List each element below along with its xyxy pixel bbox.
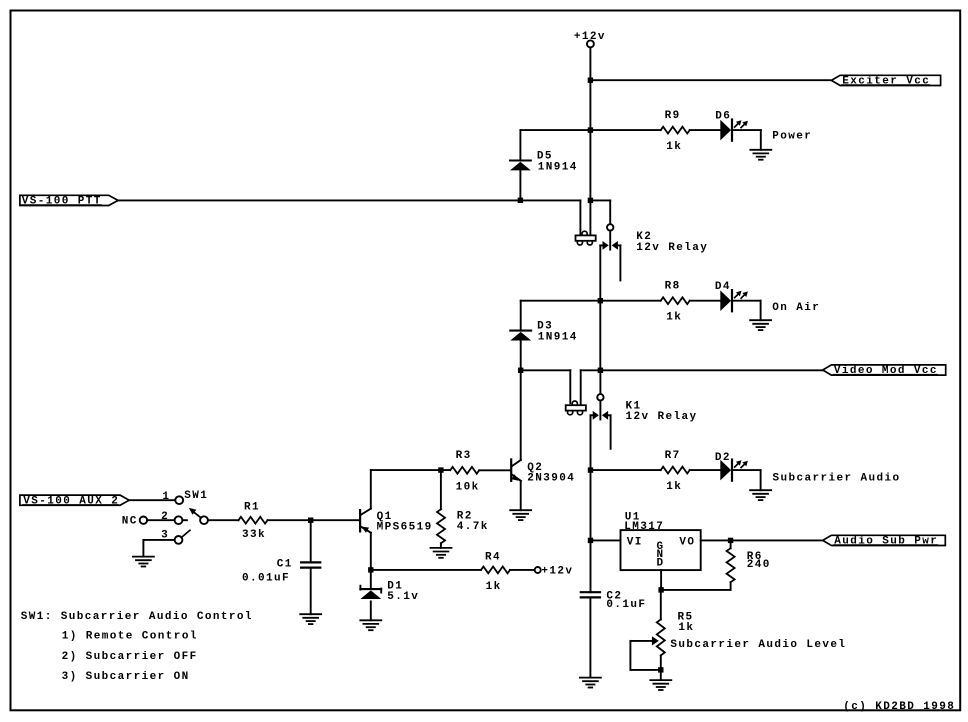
wire R8 row xyxy=(521,300,661,302)
svg-text:1N914: 1N914 xyxy=(538,161,578,173)
switch SW1 contact 2 xyxy=(175,516,183,524)
wire to D1 xyxy=(370,570,372,589)
wire to D3 cathode xyxy=(520,301,522,331)
wire to Exciter Vcc flag xyxy=(590,79,830,81)
junction R2 top xyxy=(438,467,443,472)
wire to R4 xyxy=(371,569,481,571)
transistor Q2 xyxy=(511,459,521,481)
svg-text:SW1: Subcarrier Audio Control: SW1: Subcarrier Audio Control xyxy=(21,611,253,623)
capacitor C2 xyxy=(581,592,600,597)
svg-text:Exciter Vcc: Exciter Vcc xyxy=(842,76,930,88)
wire to C1 xyxy=(310,520,312,562)
wire C1 to ground xyxy=(310,568,312,615)
svg-text:5.1v: 5.1v xyxy=(387,591,419,603)
wire SW1-3 to ground xyxy=(143,540,174,557)
wire R4 to +12v xyxy=(510,569,535,571)
svg-text:SW1: SW1 xyxy=(184,490,208,502)
svg-text:D2: D2 xyxy=(715,452,731,464)
wire Q2 collector up xyxy=(520,370,522,460)
switch SW1 arm xyxy=(189,508,201,518)
ground at D6 xyxy=(750,150,771,160)
net flag VS-100 PTT xyxy=(20,195,118,205)
wire U1 VO to Audio Sub Pwr xyxy=(701,539,823,541)
svg-text:D: D xyxy=(657,557,665,569)
LED D4 xyxy=(720,290,748,311)
wire AUX2 to SW1-1 xyxy=(129,499,175,501)
svg-text:+12v: +12v xyxy=(541,566,573,578)
switch SW1 contact 3 xyxy=(175,536,183,544)
diode D5 xyxy=(510,161,531,171)
resistor R8 xyxy=(661,297,690,304)
svg-text:1k: 1k xyxy=(666,312,682,324)
svg-text:VI: VI xyxy=(627,537,643,549)
wire VS-100 PTT to K2 coil xyxy=(118,200,580,235)
ground at D2 xyxy=(750,490,771,500)
svg-text:R8: R8 xyxy=(665,281,681,293)
net flag Video Mod Vcc xyxy=(823,365,946,375)
svg-text:VO: VO xyxy=(679,537,695,549)
wire to R2 xyxy=(440,470,442,509)
svg-text:R9: R9 xyxy=(665,110,681,122)
svg-text:10k: 10k xyxy=(456,482,480,494)
ground at R2 xyxy=(431,548,452,558)
svg-text:0.01uF: 0.01uF xyxy=(242,573,290,585)
svg-text:On Air: On Air xyxy=(772,302,820,314)
transistor Q1 xyxy=(360,509,371,533)
svg-text:R7: R7 xyxy=(665,450,681,462)
LED D2 xyxy=(720,460,748,481)
wire D2 to ground xyxy=(732,470,761,490)
svg-text:2) Subcarrier OFF: 2) Subcarrier OFF xyxy=(62,651,198,663)
node +12v terminal 2 xyxy=(535,567,541,573)
svg-text:1k: 1k xyxy=(666,481,682,493)
junction K1 output xyxy=(588,467,593,472)
wire R5 to ground xyxy=(660,670,662,680)
wire NC to SW1-2 xyxy=(147,519,175,521)
svg-text:R4: R4 xyxy=(485,552,501,564)
junction K1 xyxy=(598,368,603,373)
svg-text:1: 1 xyxy=(162,491,170,503)
wire U1 GND down xyxy=(660,570,662,590)
svg-text:Subcarrier Audio Level: Subcarrier Audio Level xyxy=(670,639,846,651)
wire R9 row left xyxy=(520,129,660,131)
wire R2 to ground xyxy=(440,543,442,548)
junction video mod left xyxy=(518,368,523,373)
svg-text:240: 240 xyxy=(747,559,771,571)
junction R5 wiper tie xyxy=(658,667,663,672)
junction C1 top xyxy=(308,518,313,523)
ground at D1 xyxy=(360,620,381,630)
svg-text:R3: R3 xyxy=(456,450,472,462)
wire bus to U1 row xyxy=(590,470,592,540)
wire +12v down xyxy=(589,47,591,80)
wire R6 bottom to U1 GND xyxy=(661,582,731,590)
diode D3 xyxy=(510,331,531,341)
wire Q2 emitter xyxy=(520,481,522,510)
svg-text:D6: D6 xyxy=(715,111,731,123)
switch SW1 contact 1 xyxy=(175,496,183,504)
wire D4 to ground xyxy=(732,301,761,321)
node +12v terminal xyxy=(587,40,594,47)
wire D1 to ground xyxy=(370,601,372,620)
junction K2 output xyxy=(598,298,603,303)
svg-text:Subcarrier Audio: Subcarrier Audio xyxy=(773,472,901,484)
wire SW1-2 stub xyxy=(182,519,187,521)
LED D6 xyxy=(720,120,748,141)
ground at R5 xyxy=(650,680,671,690)
svg-text:12v Relay: 12v Relay xyxy=(626,411,698,423)
wire to R5 xyxy=(660,590,662,620)
junction at Exciter Vcc wire xyxy=(588,78,593,83)
wire to U1 VI xyxy=(591,539,621,541)
wire bus to C2 xyxy=(590,540,592,592)
wire R8 to D4 xyxy=(690,300,721,302)
svg-text:3) Subcarrier ON: 3) Subcarrier ON xyxy=(62,671,190,683)
ground at C1 xyxy=(300,614,321,624)
relay contact K1 xyxy=(591,370,611,470)
wire K2 output down xyxy=(599,301,601,371)
capacitor C1 xyxy=(301,562,320,567)
svg-text:1N914: 1N914 xyxy=(538,331,578,343)
ground at D4 xyxy=(750,320,771,330)
junction R6 top xyxy=(728,538,733,543)
wire D5 anode down xyxy=(519,170,521,200)
junction Q1 emitter node xyxy=(368,567,373,572)
svg-text:Video Mod Vcc: Video Mod Vcc xyxy=(834,365,938,377)
switch SW1 throw stub xyxy=(181,530,190,537)
svg-text:(c) KD2BD 1998: (c) KD2BD 1998 xyxy=(843,701,955,713)
svg-text:MPS6519: MPS6519 xyxy=(377,521,433,533)
junction on PTT wire xyxy=(518,198,523,203)
svg-text:Audio Sub Pwr: Audio Sub Pwr xyxy=(834,536,938,548)
wire R1 to Q1 base xyxy=(268,519,360,521)
wire K1 coil right to Video Mod Vcc xyxy=(581,370,823,405)
net flag VS-100 AUX 2 xyxy=(20,495,129,505)
svg-text:1k: 1k xyxy=(666,141,682,153)
wire SW1 pole to R1 xyxy=(208,519,239,521)
resistor R9 xyxy=(661,127,690,134)
resistor R2 xyxy=(437,509,445,543)
potentiometer R5 xyxy=(657,619,665,655)
svg-text:Power: Power xyxy=(772,130,812,142)
wire R3 to Q2 base xyxy=(479,469,510,471)
resistor R4 xyxy=(481,567,510,574)
potentiometer R5 wiper xyxy=(630,636,660,670)
svg-text:1k: 1k xyxy=(678,622,694,634)
switch SW1 pole xyxy=(200,516,208,524)
wire Q1 collector xyxy=(370,470,372,509)
wire D3 anode down xyxy=(520,340,522,370)
svg-text:2N3904: 2N3904 xyxy=(527,473,575,485)
svg-text:2: 2 xyxy=(161,511,169,523)
svg-text:D4: D4 xyxy=(715,281,731,293)
wire to D5 cathode xyxy=(519,130,521,160)
wire +12v bus xyxy=(589,80,591,130)
ground at Q2 xyxy=(510,510,531,520)
wire R9 to D6 xyxy=(690,129,721,131)
wire bus to K2 coil xyxy=(589,200,591,235)
svg-text:12v Relay: 12v Relay xyxy=(636,242,708,254)
ground at C2 xyxy=(580,678,601,688)
svg-text:33k: 33k xyxy=(242,529,266,541)
svg-text:NC: NC xyxy=(122,516,138,528)
relay contact K2 xyxy=(600,200,620,300)
svg-text:1k: 1k xyxy=(486,581,502,593)
net flag Exciter Vcc xyxy=(831,75,940,85)
junction K2 xyxy=(588,198,593,203)
wire R5 bottom xyxy=(660,655,662,670)
zener diode D1 xyxy=(360,586,381,599)
wire Q1 emitter xyxy=(370,533,372,570)
wire C2 to ground xyxy=(589,597,591,677)
resistor R6 xyxy=(727,548,735,582)
wire to K1 coil left xyxy=(521,370,571,403)
svg-text:0.1uF: 0.1uF xyxy=(606,599,646,611)
junction U1 input xyxy=(588,538,593,543)
wire to K2 contact xyxy=(590,199,610,201)
resistor R1 xyxy=(239,517,268,524)
svg-text:C1: C1 xyxy=(277,559,293,571)
wire R7 to D2 xyxy=(690,469,721,471)
net flag Audio Sub Pwr xyxy=(823,535,946,545)
svg-text:R1: R1 xyxy=(244,501,260,513)
wire D6 to ground xyxy=(732,130,761,150)
regulator U1 xyxy=(621,530,701,570)
svg-text:LM317: LM317 xyxy=(624,521,664,533)
node NC xyxy=(140,517,147,524)
resistor R7 xyxy=(661,467,690,474)
wire +12v bus 2 xyxy=(589,130,591,200)
svg-text:4.7k: 4.7k xyxy=(457,521,489,533)
wire Q1 collector row xyxy=(371,469,450,471)
relay coil K2 xyxy=(576,231,596,245)
junction U1 GND node xyxy=(658,587,663,592)
wire to R6 xyxy=(730,540,732,548)
ground at SW1-3 xyxy=(133,557,154,567)
wire R7 row xyxy=(591,469,661,471)
svg-text:1) Remote Control: 1) Remote Control xyxy=(62,631,198,643)
svg-text:VS-100 PTT: VS-100 PTT xyxy=(22,196,102,208)
junction at R9 wire xyxy=(588,127,593,132)
resistor R3 xyxy=(450,467,479,474)
svg-text:VS-100 AUX 2: VS-100 AUX 2 xyxy=(23,495,119,507)
relay coil K1 xyxy=(566,401,586,415)
